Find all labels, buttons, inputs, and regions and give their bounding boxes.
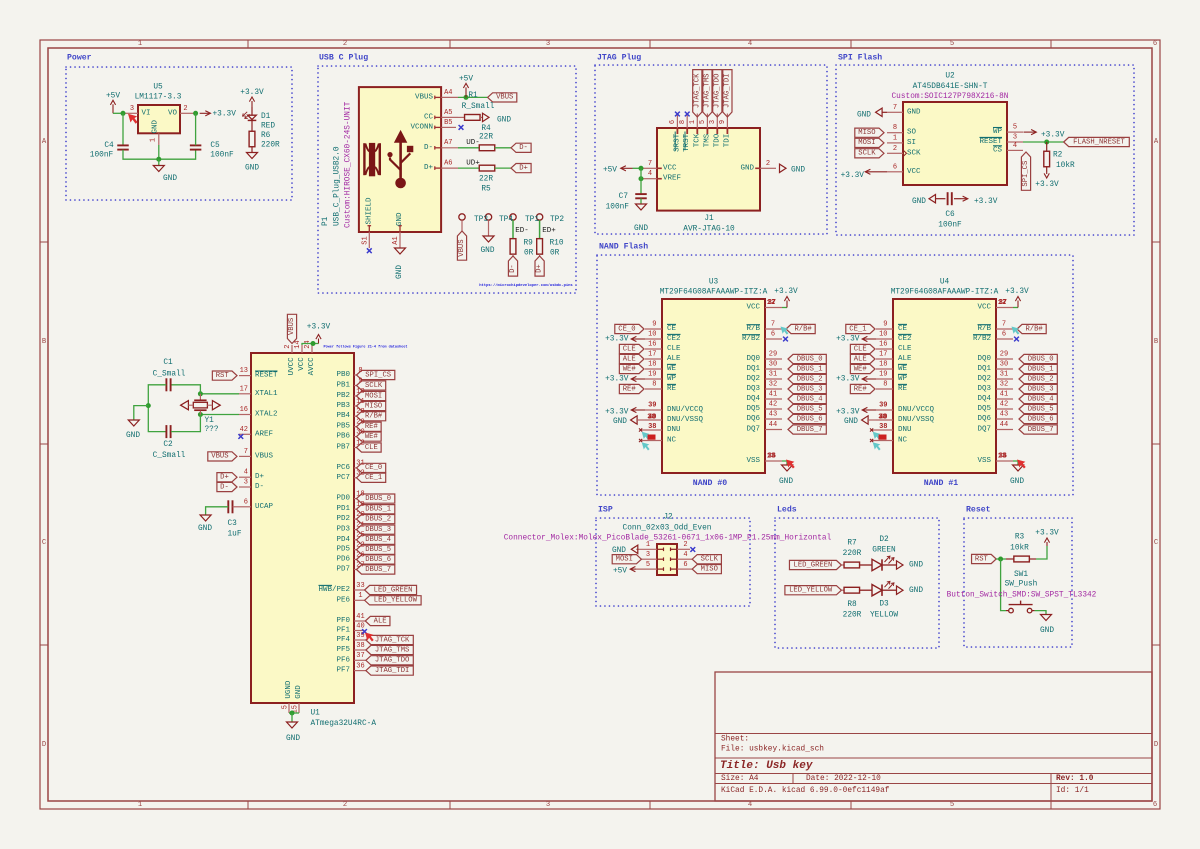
- svg-text:SHIELD: SHIELD: [365, 197, 373, 225]
- svg-text:PF4: PF4: [336, 636, 350, 644]
- svg-text:WE#: WE#: [365, 433, 379, 441]
- svg-text:6: 6: [683, 561, 687, 569]
- svg-text:2: 2: [343, 801, 347, 809]
- svg-text:CE_0: CE_0: [618, 325, 635, 333]
- svg-text:TDO: TDO: [713, 133, 721, 147]
- svg-text:D+: D+: [424, 164, 434, 172]
- svg-text:B: B: [42, 338, 47, 346]
- svg-text:TP4: TP4: [499, 216, 513, 224]
- svg-text:DBUS_4: DBUS_4: [797, 395, 823, 403]
- svg-text:GREEN: GREEN: [872, 547, 896, 555]
- svg-text:R/B2: R/B2: [973, 335, 991, 343]
- svg-text:37: 37: [768, 299, 776, 307]
- svg-text:GND: GND: [909, 587, 923, 595]
- svg-text:JTAG_TMS: JTAG_TMS: [703, 74, 711, 109]
- svg-text:+5V: +5V: [106, 92, 120, 100]
- svg-text:10kR: 10kR: [1010, 544, 1029, 552]
- svg-text:Custom:HIROSE_CX60-24S-UNIT: Custom:HIROSE_CX60-24S-UNIT: [345, 101, 353, 228]
- svg-text:UGND: UGND: [285, 680, 293, 699]
- svg-text:SO: SO: [907, 129, 917, 137]
- svg-text:VCONN: VCONN: [410, 123, 433, 131]
- svg-text:VSS: VSS: [977, 457, 991, 465]
- svg-text:Connector_Molex:Molex_PicoBlad: Connector_Molex:Molex_PicoBlade_53261-06…: [504, 535, 832, 543]
- svg-text:DQ5: DQ5: [977, 405, 991, 413]
- svg-text:PC7: PC7: [336, 474, 350, 482]
- svg-text:R7: R7: [847, 540, 857, 548]
- svg-text:GND: GND: [791, 166, 805, 174]
- svg-text:3: 3: [546, 801, 550, 809]
- svg-text:D: D: [1154, 741, 1158, 749]
- svg-text:DBUS_1: DBUS_1: [797, 365, 823, 373]
- svg-text:VBUS: VBUS: [415, 93, 434, 101]
- svg-text:Custom:SOIC127P798X216-8N: Custom:SOIC127P798X216-8N: [892, 93, 1009, 101]
- svg-text:0R: 0R: [550, 250, 560, 258]
- svg-text:DBUS_3: DBUS_3: [1028, 385, 1054, 393]
- svg-text:GND: GND: [912, 198, 926, 206]
- svg-text:30: 30: [1000, 361, 1008, 369]
- svg-text:ED+: ED+: [542, 227, 556, 235]
- svg-text:37: 37: [999, 299, 1007, 307]
- svg-text:GND: GND: [163, 175, 177, 183]
- svg-text:B5: B5: [444, 119, 452, 127]
- svg-text:7: 7: [771, 321, 775, 329]
- svg-text:DBUS_6: DBUS_6: [1028, 415, 1054, 423]
- svg-text:U3: U3: [709, 279, 719, 287]
- svg-text:FLASH_NRESET: FLASH_NRESET: [1073, 138, 1125, 146]
- svg-text:Conn_02x03_Odd_Even: Conn_02x03_Odd_Even: [623, 525, 712, 533]
- svg-text:AREF: AREF: [255, 430, 273, 438]
- svg-text:R/B#: R/B#: [365, 413, 383, 421]
- svg-text:DQ3: DQ3: [746, 385, 760, 393]
- svg-text:2: 2: [183, 105, 187, 113]
- svg-text:GND: GND: [198, 525, 212, 533]
- svg-text:38: 38: [878, 413, 886, 421]
- svg-text:DBUS_7: DBUS_7: [797, 426, 823, 434]
- svg-text:GND: GND: [740, 164, 754, 172]
- svg-text:1uF: 1uF: [228, 531, 242, 539]
- svg-text:VCC: VCC: [907, 168, 921, 176]
- svg-text:+3.3V: +3.3V: [307, 324, 331, 332]
- svg-text:8: 8: [883, 381, 887, 389]
- svg-text:JTAG_TDI: JTAG_TDI: [375, 667, 410, 675]
- svg-text:+3.3V: +3.3V: [605, 409, 629, 417]
- svg-text:LED_YELLOW: LED_YELLOW: [789, 587, 833, 595]
- svg-text:2: 2: [893, 145, 897, 153]
- svg-text:31: 31: [769, 371, 777, 379]
- svg-text:SI: SI: [907, 139, 916, 147]
- svg-text:SPI Flash: SPI Flash: [838, 53, 882, 63]
- svg-text:Y1: Y1: [205, 417, 215, 425]
- svg-text:D3: D3: [879, 601, 889, 609]
- svg-text:37: 37: [356, 652, 364, 660]
- svg-text:9: 9: [358, 377, 362, 385]
- svg-text:6: 6: [1002, 331, 1006, 339]
- svg-text:44: 44: [1000, 421, 1008, 429]
- svg-text:VSS: VSS: [746, 457, 760, 465]
- svg-text:VBUS: VBUS: [458, 239, 466, 256]
- svg-text:GND: GND: [1040, 627, 1054, 635]
- svg-text:DBUS_4: DBUS_4: [365, 536, 391, 544]
- svg-text:DBUS_0: DBUS_0: [1028, 355, 1054, 363]
- svg-text:8: 8: [893, 124, 897, 132]
- svg-text:DQ3: DQ3: [977, 385, 991, 393]
- svg-text:+3.3V: +3.3V: [1035, 530, 1059, 538]
- svg-text:19: 19: [879, 371, 887, 379]
- svg-text:43: 43: [1000, 411, 1008, 419]
- svg-text:38: 38: [647, 413, 655, 421]
- svg-text:2: 2: [284, 345, 292, 349]
- svg-text:14: 14: [294, 340, 302, 348]
- svg-text:R1: R1: [468, 92, 478, 100]
- svg-text:1: 1: [893, 134, 897, 142]
- svg-text:7: 7: [1002, 321, 1006, 329]
- svg-text:R/B#: R/B#: [794, 325, 812, 333]
- svg-text:USB_C_Plug_USB2.0: USB_C_Plug_USB2.0: [334, 146, 342, 226]
- svg-text:R3: R3: [1015, 534, 1025, 542]
- svg-text:NC: NC: [898, 437, 908, 445]
- svg-text:10kR: 10kR: [1056, 162, 1075, 170]
- svg-text:MOSI: MOSI: [858, 139, 875, 147]
- svg-text:36: 36: [356, 662, 364, 670]
- svg-text:A: A: [1154, 138, 1159, 146]
- svg-text:SPI_CS: SPI_CS: [1022, 161, 1030, 187]
- svg-text:RST: RST: [216, 372, 230, 380]
- svg-text:PF0: PF0: [336, 617, 350, 625]
- svg-text:C4: C4: [104, 142, 114, 150]
- svg-text:MOSI: MOSI: [616, 556, 633, 564]
- svg-text:CE2: CE2: [898, 335, 912, 343]
- svg-text:NAND #1: NAND #1: [924, 479, 958, 488]
- svg-text:AVR-JTAG-10: AVR-JTAG-10: [683, 226, 735, 234]
- svg-text:D-: D-: [424, 144, 433, 152]
- svg-text:39: 39: [879, 402, 887, 410]
- svg-text:+3.3V: +3.3V: [774, 288, 798, 296]
- svg-text:5: 5: [282, 705, 290, 709]
- svg-text:U4: U4: [940, 279, 950, 287]
- svg-text:VI: VI: [142, 109, 151, 117]
- svg-text:17: 17: [648, 351, 656, 359]
- svg-text:GND: GND: [909, 562, 923, 570]
- svg-text:5: 5: [950, 40, 954, 48]
- svg-text:D: D: [42, 741, 46, 749]
- svg-text:P1: P1: [322, 216, 330, 226]
- svg-text:J2: J2: [663, 514, 673, 522]
- svg-text:DBUS_4: DBUS_4: [1028, 395, 1054, 403]
- svg-text:File: usbkey.kicad_sch: File: usbkey.kicad_sch: [721, 746, 824, 754]
- svg-text:RE: RE: [667, 385, 677, 393]
- svg-text:Date: 2022-12-10: Date: 2022-12-10: [806, 775, 881, 783]
- svg-text:GND: GND: [907, 108, 921, 116]
- svg-text:DBUS_0: DBUS_0: [797, 355, 823, 363]
- svg-text:HWB/PE2: HWB/PE2: [318, 586, 350, 594]
- svg-text:4: 4: [683, 551, 687, 559]
- svg-text:18: 18: [879, 361, 887, 369]
- svg-text:17: 17: [879, 351, 887, 359]
- svg-text:NAND Flash: NAND Flash: [599, 242, 648, 252]
- svg-text:PF5: PF5: [336, 646, 350, 654]
- svg-text:2: 2: [343, 40, 347, 48]
- svg-text:VCC: VCC: [746, 304, 760, 312]
- svg-text:MISO: MISO: [365, 402, 382, 410]
- svg-text:CLE: CLE: [365, 444, 378, 452]
- svg-text:PD2: PD2: [336, 515, 350, 523]
- svg-text:R/B: R/B: [977, 325, 991, 333]
- svg-text:D-: D-: [255, 483, 264, 491]
- svg-text:A: A: [42, 138, 47, 146]
- svg-text:+3.3V: +3.3V: [836, 336, 860, 344]
- svg-text:VO: VO: [168, 109, 178, 117]
- svg-text:RESET: RESET: [255, 372, 278, 380]
- svg-text:U1: U1: [311, 710, 321, 718]
- svg-text:A1: A1: [392, 236, 400, 244]
- svg-text:TP3: TP3: [474, 216, 488, 224]
- svg-text:SCLK: SCLK: [858, 150, 876, 158]
- svg-text:A5: A5: [444, 109, 452, 117]
- svg-text:CE2: CE2: [667, 335, 681, 343]
- svg-text:GND: GND: [844, 418, 858, 426]
- svg-text:6: 6: [1153, 801, 1157, 809]
- svg-text:PD1: PD1: [336, 505, 350, 513]
- svg-text:GND: GND: [126, 432, 140, 440]
- svg-text:RE: RE: [898, 385, 908, 393]
- svg-text:32: 32: [769, 381, 777, 389]
- svg-text:1: 1: [138, 801, 142, 809]
- svg-text:A7: A7: [444, 139, 452, 147]
- svg-text:R/B#: R/B#: [1025, 325, 1043, 333]
- svg-text:1: 1: [150, 138, 158, 142]
- svg-text:A4: A4: [444, 89, 452, 97]
- svg-text:CLE: CLE: [623, 345, 636, 353]
- svg-text:CE: CE: [667, 325, 677, 333]
- svg-text:R4: R4: [481, 125, 491, 133]
- svg-text:LED_GREEN: LED_GREEN: [374, 586, 413, 594]
- svg-text:6: 6: [893, 163, 897, 171]
- svg-text:ALE: ALE: [667, 355, 681, 363]
- svg-text:16: 16: [879, 341, 887, 349]
- svg-text:8: 8: [652, 381, 656, 389]
- svg-text:SPI_CS: SPI_CS: [365, 371, 391, 379]
- svg-text:CS: CS: [993, 146, 1003, 154]
- svg-text:VREF: VREF: [663, 175, 681, 183]
- svg-text:19: 19: [648, 371, 656, 379]
- svg-text:7: 7: [244, 448, 248, 456]
- svg-text:R/B2: R/B2: [742, 335, 760, 343]
- svg-text:22R: 22R: [479, 175, 493, 183]
- svg-text:16: 16: [648, 341, 656, 349]
- svg-text:9: 9: [883, 321, 887, 329]
- svg-text:+3.3V: +3.3V: [240, 89, 264, 97]
- svg-text:44: 44: [769, 421, 777, 429]
- svg-text:WE: WE: [898, 365, 908, 373]
- svg-text:DBUS_2: DBUS_2: [365, 515, 391, 523]
- svg-text:TMS: TMS: [703, 133, 711, 147]
- svg-text:3: 3: [546, 40, 550, 48]
- svg-text:Size: A4: Size: A4: [721, 775, 759, 783]
- svg-text:GND: GND: [245, 164, 259, 172]
- svg-text:6: 6: [1153, 40, 1157, 48]
- svg-text:28: 28: [356, 408, 364, 416]
- svg-text:Title: Usb key: Title: Usb key: [720, 760, 813, 772]
- svg-text:PD7: PD7: [336, 566, 350, 574]
- svg-text:+3.3V: +3.3V: [836, 409, 860, 417]
- svg-text:36: 36: [999, 453, 1007, 461]
- svg-text:RED: RED: [261, 123, 275, 131]
- svg-text:3: 3: [1013, 134, 1017, 142]
- svg-text:40: 40: [356, 622, 364, 630]
- svg-text:29: 29: [769, 351, 777, 359]
- svg-text:PB4: PB4: [336, 412, 350, 420]
- svg-text:WP: WP: [993, 128, 1003, 136]
- svg-text:4: 4: [244, 469, 248, 477]
- svg-text:41: 41: [356, 613, 364, 621]
- svg-text:5: 5: [699, 120, 707, 124]
- svg-text:CLE: CLE: [667, 345, 681, 353]
- svg-text:AVCC: AVCC: [308, 357, 316, 376]
- svg-text:WP: WP: [898, 375, 908, 383]
- svg-text:42: 42: [240, 426, 248, 434]
- svg-text:32: 32: [356, 470, 364, 478]
- svg-text:41: 41: [769, 391, 777, 399]
- svg-text:DBUS_6: DBUS_6: [797, 415, 823, 423]
- svg-text:100nF: 100nF: [938, 221, 962, 229]
- svg-text:UCAP: UCAP: [255, 503, 274, 511]
- svg-text:30: 30: [356, 428, 364, 436]
- svg-text:C: C: [1154, 539, 1159, 547]
- svg-text:DQ0: DQ0: [746, 355, 760, 363]
- svg-text:D-: D-: [220, 483, 229, 491]
- svg-text:GND: GND: [779, 478, 793, 486]
- svg-text:16: 16: [240, 406, 248, 414]
- svg-text:DQ7: DQ7: [746, 426, 760, 434]
- svg-text:WE: WE: [667, 365, 677, 373]
- svg-text:30: 30: [769, 361, 777, 369]
- svg-text:4: 4: [1013, 142, 1017, 150]
- svg-text:J1: J1: [704, 215, 714, 223]
- svg-text:C: C: [42, 539, 47, 547]
- svg-text:6: 6: [771, 331, 775, 339]
- svg-text:B: B: [1154, 338, 1159, 346]
- svg-text:+3.3V: +3.3V: [605, 336, 629, 344]
- svg-text:DBUS_3: DBUS_3: [797, 385, 823, 393]
- svg-text:220R: 220R: [843, 612, 862, 620]
- svg-text:VBUS: VBUS: [288, 318, 296, 335]
- svg-text:DBUS_7: DBUS_7: [365, 566, 391, 574]
- svg-text:WE#: WE#: [854, 365, 868, 373]
- svg-text:8: 8: [358, 367, 362, 375]
- svg-text:33: 33: [356, 582, 364, 590]
- svg-text:ALE: ALE: [623, 355, 636, 363]
- svg-text:Sheet:: Sheet:: [721, 736, 749, 744]
- svg-text:R5: R5: [481, 186, 491, 194]
- svg-text:ALE: ALE: [854, 355, 867, 363]
- svg-text:9: 9: [652, 321, 656, 329]
- svg-text:25: 25: [356, 532, 364, 540]
- svg-text:DNU/VCCQ: DNU/VCCQ: [898, 406, 935, 414]
- svg-text:RST: RST: [975, 555, 989, 563]
- svg-text:C5: C5: [210, 142, 220, 150]
- svg-text:PF6: PF6: [336, 656, 350, 664]
- svg-text:TP1: TP1: [525, 216, 539, 224]
- svg-text:+3.3V: +3.3V: [1035, 181, 1059, 189]
- svg-text:19: 19: [356, 501, 364, 509]
- svg-text:5: 5: [1013, 124, 1017, 132]
- svg-text:SW_Push: SW_Push: [1005, 581, 1038, 589]
- svg-text:1: 1: [138, 40, 142, 48]
- svg-text:Button_Switch_SMD:SW_SPST_TL33: Button_Switch_SMD:SW_SPST_TL3342: [947, 591, 1097, 599]
- svg-text:DQ4: DQ4: [977, 395, 991, 403]
- svg-text:PD4: PD4: [336, 536, 350, 544]
- svg-text:DBUS_6: DBUS_6: [365, 556, 391, 564]
- svg-text:3: 3: [646, 551, 650, 559]
- svg-text:18: 18: [648, 361, 656, 369]
- svg-text:DQ6: DQ6: [746, 415, 760, 423]
- svg-text:CE_1: CE_1: [849, 325, 866, 333]
- svg-text:UVCC: UVCC: [288, 357, 296, 376]
- svg-text:Reset: Reset: [966, 506, 991, 515]
- svg-text:+5V: +5V: [613, 567, 627, 575]
- svg-text:C7: C7: [619, 193, 629, 201]
- svg-text:31: 31: [1000, 371, 1008, 379]
- svg-text:GND: GND: [1010, 478, 1024, 486]
- svg-text:PB6: PB6: [336, 433, 350, 441]
- svg-text:PD0: PD0: [336, 495, 350, 503]
- svg-text:3: 3: [244, 479, 248, 487]
- svg-text:CE_0: CE_0: [365, 464, 382, 472]
- svg-text:38: 38: [648, 423, 656, 431]
- svg-text:GND: GND: [480, 247, 494, 255]
- svg-text:YELLOW: YELLOW: [870, 612, 898, 620]
- svg-text:CE_1: CE_1: [365, 474, 382, 482]
- svg-text:DQ0: DQ0: [977, 355, 991, 363]
- svg-text:R9: R9: [524, 240, 534, 248]
- svg-text:DBUS_5: DBUS_5: [365, 546, 391, 554]
- svg-text:LED_YELLOW: LED_YELLOW: [374, 597, 418, 605]
- svg-text:39: 39: [648, 402, 656, 410]
- svg-text:2: 2: [683, 541, 687, 549]
- svg-text:Power follows Figure 21-4 from: Power follows Figure 21-4 from datasheet: [324, 344, 408, 349]
- svg-text:PB3: PB3: [336, 402, 350, 410]
- svg-text:JTAG_TDO: JTAG_TDO: [713, 74, 721, 109]
- svg-text:PF7: PF7: [336, 667, 350, 675]
- svg-text:C3: C3: [228, 520, 238, 528]
- svg-text:MOSI: MOSI: [365, 392, 382, 400]
- svg-text:1: 1: [646, 541, 650, 549]
- svg-text:D+: D+: [536, 264, 544, 273]
- svg-text:13: 13: [240, 367, 248, 375]
- svg-text:20: 20: [356, 511, 364, 519]
- svg-text:RE#: RE#: [854, 385, 868, 393]
- svg-text:43: 43: [769, 411, 777, 419]
- svg-text:DNU/VCCQ: DNU/VCCQ: [667, 406, 704, 414]
- svg-text:DBUS_3: DBUS_3: [365, 526, 391, 534]
- svg-text:R/B: R/B: [746, 325, 760, 333]
- svg-text:27: 27: [356, 561, 364, 569]
- svg-text:GND: GND: [396, 212, 404, 226]
- svg-text:+3.3V: +3.3V: [1005, 288, 1029, 296]
- svg-text:VBUS: VBUS: [496, 94, 513, 102]
- svg-text:U5: U5: [153, 84, 163, 92]
- svg-text:22: 22: [356, 542, 364, 550]
- svg-text:36: 36: [768, 453, 776, 461]
- svg-text:C_Small: C_Small: [153, 452, 186, 460]
- svg-text:0R: 0R: [524, 250, 534, 258]
- svg-text:1: 1: [689, 120, 697, 124]
- svg-text:220R: 220R: [843, 550, 862, 558]
- svg-text:MT29F64G08AFAAAWP-ITZ:A: MT29F64G08AFAAAWP-ITZ:A: [891, 289, 999, 297]
- svg-text:???: ???: [205, 426, 219, 434]
- svg-text:2: 2: [766, 160, 770, 168]
- svg-text:42: 42: [769, 401, 777, 409]
